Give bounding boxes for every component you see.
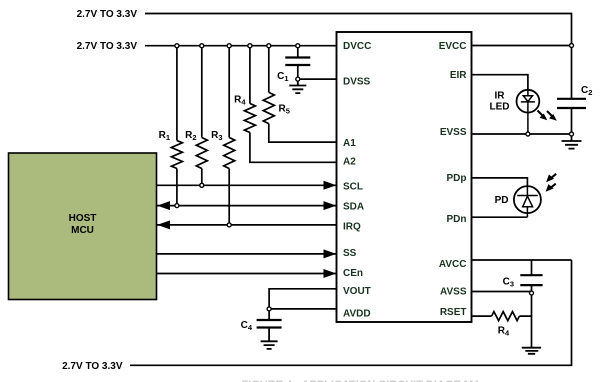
svg-text:R2: R2	[185, 130, 196, 142]
svg-text:VOUT: VOUT	[343, 286, 371, 297]
svg-text:EVSS: EVSS	[440, 127, 467, 138]
svg-text:SDA: SDA	[343, 202, 364, 213]
junction dot DVSS C1	[296, 77, 300, 81]
svg-text:R4: R4	[498, 326, 510, 338]
resistor R3	[224, 138, 235, 169]
junction dot rail2 R2	[200, 44, 204, 48]
junction dot C3 AVSS	[530, 291, 534, 295]
wire R2 bottom to SCL	[201, 169, 203, 186]
LED emission arrow 1	[538, 111, 544, 117]
PD incoming arrow 2	[550, 184, 556, 189]
svg-text:C4: C4	[241, 320, 253, 332]
svg-text:2.7V TO 3.3V: 2.7V TO 3.3V	[77, 41, 138, 52]
arrow SDA into IC	[324, 201, 337, 210]
svg-text:RSET: RSET	[440, 307, 467, 318]
wire second rail into DVCC	[145, 45, 337, 47]
LED emission arrow 2	[547, 111, 553, 117]
ground below C4	[261, 328, 278, 349]
svg-text:AVDD: AVDD	[343, 308, 371, 319]
wire C1 top	[297, 46, 299, 58]
junction dot rail2 R4	[248, 44, 252, 48]
wire C2 bottom to EVSS	[571, 108, 573, 134]
ground at EVSS	[562, 134, 582, 149]
svg-text:C1: C1	[277, 71, 288, 83]
junction dot LED EVSS	[526, 132, 530, 136]
svg-text:DVCC: DVCC	[343, 41, 371, 52]
capacitor C4	[257, 320, 282, 328]
svg-text:SS: SS	[343, 248, 357, 259]
arrow SS into IC	[324, 249, 337, 258]
ground below C3	[522, 348, 541, 354]
wire R2 top	[201, 46, 203, 138]
wire VOUT loop	[269, 289, 337, 309]
svg-text:PD: PD	[495, 195, 509, 206]
IC U1 box	[337, 32, 472, 322]
wire C1 bottom to DVSS node	[297, 65, 299, 79]
wire R5 bottom to A1	[269, 124, 337, 143]
arrow SCL into IC	[324, 181, 337, 190]
wire SS	[157, 253, 338, 255]
svg-text:PDn: PDn	[447, 214, 467, 225]
svg-text:AVSS: AVSS	[440, 286, 467, 297]
wire DVSS	[298, 78, 337, 80]
svg-text:R1: R1	[159, 130, 170, 142]
wire EIR to LED	[472, 75, 528, 90]
svg-text:C2: C2	[581, 85, 592, 97]
junction dot rail2 R1	[175, 44, 179, 48]
wire SCL	[157, 184, 338, 186]
svg-text:A1: A1	[343, 138, 356, 149]
wire C4 top	[268, 309, 270, 320]
wire R5 top	[268, 46, 270, 93]
wire SDA	[157, 205, 338, 207]
wire R4 top	[249, 46, 251, 104]
junction dot SDA R1	[175, 204, 179, 208]
junction dot SCL R2	[200, 183, 204, 187]
svg-text:IRQ: IRQ	[343, 222, 361, 233]
capacitor C2	[557, 99, 586, 108]
svg-text:EIR: EIR	[450, 70, 467, 81]
host MCU block	[9, 153, 157, 300]
wire IRQ	[157, 224, 338, 226]
svg-text:A2: A2	[343, 157, 356, 168]
ground below C1	[289, 79, 306, 93]
wire AVCC	[472, 259, 572, 261]
IR LED D1	[517, 90, 540, 113]
wire RSET	[472, 315, 532, 317]
arrow IRQ into MCU	[157, 220, 170, 229]
svg-text:DVSS: DVSS	[343, 77, 371, 88]
svg-text:PDp: PDp	[447, 173, 467, 184]
svg-text:HOST: HOST	[69, 213, 97, 224]
wire C3 top to AVCC	[531, 260, 533, 275]
junction dot AVDD VOUT	[267, 307, 271, 311]
junction dot rail2 C1	[296, 44, 300, 48]
arrow CEn into IC	[324, 269, 337, 278]
junction dot EVSS ground	[570, 132, 574, 136]
wire PDp to PD	[472, 178, 527, 186]
wire AVSS	[472, 291, 532, 293]
junction dot rail2 R5	[267, 44, 271, 48]
svg-text:2.7V TO 3.3V: 2.7V TO 3.3V	[77, 9, 138, 20]
wire R3 top	[228, 46, 230, 138]
wire R3 bottom to IRQ	[228, 169, 230, 225]
resistor R5 pullup	[263, 92, 274, 123]
wire CEn	[157, 273, 338, 275]
capacitor C3	[520, 275, 542, 285]
arrow SDA into MCU	[157, 201, 170, 210]
wire bottom rail up to AVCC	[130, 260, 572, 365]
junction dot IRQ R3	[227, 223, 231, 227]
PD incoming arrow 1	[551, 174, 557, 179]
svg-text:R3: R3	[211, 130, 222, 142]
wire EVSS	[472, 133, 572, 135]
svg-text:2.7V TO 3.3V: 2.7V TO 3.3V	[62, 361, 123, 372]
wire C3 node down to ground	[531, 293, 533, 347]
junction dot EVCC	[570, 44, 574, 48]
capacitor C1	[285, 58, 310, 66]
resistor R4 rset	[492, 312, 520, 321]
svg-text:SCL: SCL	[343, 181, 363, 192]
resistor R1	[171, 141, 182, 169]
wire top rail to EVCC vertical	[145, 14, 572, 99]
svg-text:EVCC: EVCC	[439, 41, 467, 52]
svg-text:CEn: CEn	[343, 268, 363, 279]
wire EVCC	[472, 45, 572, 47]
wire PDn	[472, 216, 527, 218]
svg-text:C3: C3	[503, 277, 514, 289]
wire R1 bottom to SDA	[176, 169, 178, 206]
resistor R2	[196, 138, 207, 169]
svg-text:R5: R5	[279, 104, 290, 116]
wire C3 bottom node	[531, 285, 533, 293]
junction dot rail2 R3	[227, 44, 231, 48]
svg-text:IR: IR	[495, 91, 506, 102]
wire R4 bottom to A2	[250, 133, 337, 163]
svg-text:LED: LED	[490, 102, 510, 113]
photodiode PD	[514, 186, 541, 213]
resistor R4 pullup	[244, 104, 255, 133]
svg-text:MCU: MCU	[71, 225, 94, 236]
wire AVDD	[269, 308, 337, 310]
wire R1 top	[176, 46, 178, 141]
svg-text:R4: R4	[234, 95, 246, 107]
svg-text:AVCC: AVCC	[439, 259, 467, 270]
